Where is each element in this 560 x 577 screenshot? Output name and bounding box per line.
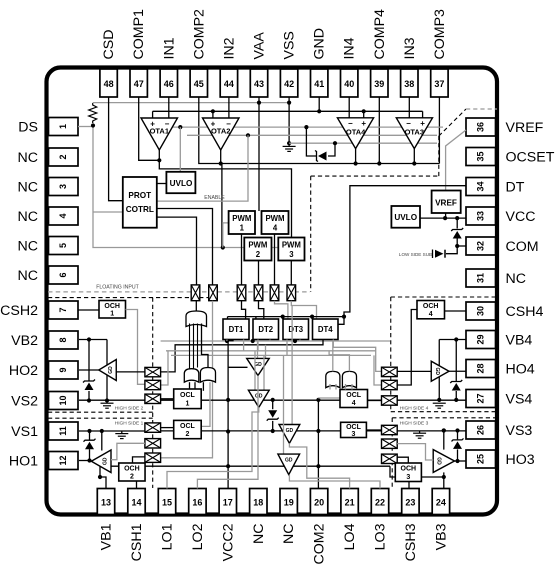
svg-text:2: 2 [185,431,189,438]
svg-text:HO3: HO3 [506,452,535,468]
block OCL2 [174,420,202,438]
svg-text:44: 44 [224,79,234,89]
pin 18 NC (bottom) [250,489,267,515]
gray bus row3 [166,350,376,352]
svg-text:29: 29 [476,334,486,344]
level shifter HS4-r2 [382,380,398,389]
svg-text:30: 30 [476,306,486,316]
pin 46 IN1 (top) [160,69,177,97]
pin 27 VS4 (right) [466,390,496,408]
svg-text:LO1: LO1 [160,523,176,550]
pin 47 COMP1 (top) [130,69,147,97]
wire CSD pin48 to PROT [109,97,123,201]
block UVLO left [166,172,195,193]
driver GD-C (LO4) [291,306,293,425]
wire CSH2 to OCH1 [78,309,99,311]
wire fault in 1 [189,324,191,369]
svg-text:36: 36 [476,122,486,132]
wire HO3 out [455,460,467,462]
svg-text:NC: NC [18,239,39,255]
or-gate OCL1 pair left [184,369,199,383]
wire IN3 to OTA3 inverting input [408,97,410,118]
gray feedback line C [289,142,437,144]
svg-text:DT3: DT3 [288,325,303,334]
svg-text:IN3: IN3 [402,37,418,59]
node Y1 d [316,398,320,402]
svg-text:34: 34 [476,181,486,191]
driver HO1 [91,450,111,473]
svg-text:CSH1: CSH1 [129,523,145,561]
block PROT COTRL [123,177,157,228]
wire VB1 path [100,466,106,489]
or-gate OCL4 pair right [342,371,356,387]
svg-text:NC: NC [18,150,39,166]
wire DT1 out a [226,340,228,342]
wire DT3 out a [286,340,288,356]
svg-text:HO1: HO1 [9,454,38,470]
svg-text:COMP2: COMP2 [191,9,207,60]
svg-text:PWM: PWM [282,241,301,250]
wire ENABLE from PROT [157,135,248,201]
wire LS2 down-long [161,301,213,458]
svg-text:DT: DT [506,180,525,196]
block OCL4 [340,390,368,408]
driver HO2 [99,360,117,381]
row Y3 [111,465,390,467]
block OCL1 [174,389,202,409]
level shifter HS2-r2 [145,380,161,389]
gray bus row4 [171,354,371,356]
wire HO4 supply [438,340,440,400]
svg-text:23: 23 [405,498,415,508]
wire VREF block to VCC line [445,213,447,218]
svg-text:COTRL: COTRL [126,205,154,214]
pin 7 CSH2 (left) [49,301,79,319]
node VCC2 x Y1 [226,398,230,402]
node VSS gray junction [287,141,291,145]
svg-text:26: 26 [476,425,486,435]
svg-text:VCC: VCC [506,209,536,225]
svg-text:LOW SIDE SUB: LOW SIDE SUB [399,252,432,257]
wire HO1 out [79,460,91,462]
wire OTA1 output down [159,150,291,238]
wire PROT to level shifter 2 [157,209,213,285]
svg-text:VB4: VB4 [506,333,533,349]
pin 36 VREF (right) [466,118,496,136]
wire GD-A out to LO2 [197,376,258,489]
driver HO4 [431,361,449,381]
wire DT2 out a [257,340,259,351]
svg-text:41: 41 [314,79,324,89]
wire IN4 to OTA4 inverting input [348,97,350,118]
node DS-resistor junction [91,123,95,127]
node VB1 [98,475,102,479]
block OCH3 [395,463,421,482]
svg-text:DT2: DT2 [258,325,273,334]
svg-text:NC: NC [506,271,527,287]
svg-text:4: 4 [429,311,433,318]
pin 34 DT (right) [466,178,496,196]
svg-text:GD: GD [434,368,440,376]
svg-text:PWM: PWM [248,241,267,250]
diode DB2 [85,383,94,391]
svg-text:LO4: LO4 [342,523,358,550]
svg-text:OCL: OCL [180,392,196,399]
svg-text:VAA: VAA [252,32,268,60]
svg-text:OCH: OCH [401,466,417,473]
svg-text:NC: NC [18,209,39,225]
svg-text:HIGH SIDE 1: HIGH SIDE 1 [115,421,144,427]
node HO1 a [87,458,91,462]
svg-text:OTA4: OTA4 [346,128,366,137]
svg-text:LO3: LO3 [373,523,389,550]
svg-text:VREF: VREF [506,120,544,136]
zener diode D1 [318,152,327,161]
pin 12 HO1 (left) [49,452,79,470]
pin 41 GND (top) [311,69,328,97]
svg-text:VB2: VB2 [11,333,38,349]
svg-text:VCC2: VCC2 [220,523,236,561]
wire IN2 to OTA2 inverting input [228,97,230,118]
svg-text:COM2: COM2 [312,523,328,564]
svg-text:OCH: OCH [423,303,439,310]
pin 8 VB2 (left) [49,331,79,349]
wire LS3 to DT1 [242,301,246,319]
wire IN1 to OTA1 inverting input [168,97,170,118]
svg-text:VS4: VS4 [506,392,533,408]
node VS1 b [100,429,104,433]
svg-text:OCH: OCH [124,466,140,473]
node COMP1/OTA1 junction [157,158,161,162]
wire OCH3 to CSH3 [408,482,410,489]
block PWM3 [278,238,304,261]
op-amp OTA3 [396,118,432,149]
svg-text:3: 3 [289,250,294,259]
wire HO2 driver input [116,371,145,373]
svg-text:PWM: PWM [265,214,284,223]
svg-text:7: 7 [58,307,68,312]
svg-text:19: 19 [284,498,294,508]
pin 31 NC (right) [466,269,496,287]
svg-text:COMP1: COMP1 [131,9,147,60]
zener center [272,400,274,409]
dashed high-side right boundary [391,296,497,298]
wire DS tap to PROT [93,211,123,213]
svg-text:VS1: VS1 [11,424,38,440]
wire LS5 to DT3 [275,301,288,319]
svg-text:GD: GD [285,458,293,464]
svg-text:1: 1 [185,401,189,408]
gray bus row2 (DT4 to HS2 level shifter) [161,340,323,372]
svg-text:GD: GD [255,394,263,400]
ground high side 4 [433,402,446,404]
pin 24 VB3 (bottom) [432,489,449,515]
svg-text:IN2: IN2 [221,37,237,59]
wire zener tap [306,127,317,156]
svg-text:4: 4 [273,224,278,233]
wire VREF/UVLO to VCC pin [420,217,466,219]
wire dome R inputs [202,382,204,391]
svg-text:48: 48 [104,79,114,89]
wire OCL4 left link [318,397,340,399]
wire DT2 out b [269,340,271,342]
block DT4 [313,319,339,340]
node VS2 a [87,398,91,402]
resistor on DS line [89,103,97,123]
block OCH4 [417,301,445,319]
wire HO1 driver input [111,443,145,459]
svg-text:39: 39 [374,79,384,89]
node DT bus c [310,315,314,319]
wire PWM4 output [274,234,276,285]
wire HO4 driver input [397,370,431,372]
svg-text:20: 20 [314,498,324,508]
block PWM2 [244,238,271,261]
op-amp OTA1 [141,118,178,150]
wire OCL3 out [366,429,381,431]
svg-text:ENABLE: ENABLE [204,195,225,201]
op-amp OTA2 [203,118,240,150]
svg-text:VB3: VB3 [433,523,449,550]
svg-text:HIGH SIDE 2: HIGH SIDE 2 [115,406,144,412]
pin 1 DS (left) [49,118,79,136]
wire OCH3 in [397,457,408,463]
wire dome L inputs [189,382,191,391]
svg-text:DT4: DT4 [318,325,333,334]
wire HS4-r3 in [368,400,382,402]
svg-text:VS2: VS2 [11,394,38,410]
level shifter LS5 [270,285,279,301]
driver HO3 [433,450,454,473]
low side sub diode [446,246,457,254]
svg-text:OCL: OCL [180,423,196,430]
svg-text:GD: GD [103,457,109,465]
node OTA4 plus [362,109,366,113]
wire VREF pin to VREF block [446,130,466,191]
wire HO3 driver input [397,444,433,460]
svg-text:3: 3 [406,474,410,481]
pin 37 COMP3 (top) [431,69,448,97]
wire OTA4 output [355,149,357,164]
pin 14 CSH1 (bottom) [128,489,145,515]
pin 48 CSD (top) [100,69,117,97]
svg-text:OCH: OCH [104,303,120,310]
level shifter HS4-r3 [382,396,398,405]
wire PWM2 output [258,261,260,285]
node OTA2 plus [211,109,215,113]
svg-text:13: 13 [101,498,111,508]
pin 38 IN3 (top) [401,69,418,97]
pin 32 COM (right) [466,237,496,255]
wire VB2 bootstrap diode branch [88,340,90,381]
diode DB3 [457,431,459,440]
wire OTA2 output [220,150,222,164]
row Y2 VS1-VS3 [145,430,466,432]
svg-text:DT1: DT1 [229,325,244,334]
svg-text:2: 2 [256,250,261,259]
wire right LS r2 link [374,355,382,385]
node VREF-VCC [443,216,447,220]
wire noninverting bus (GND) [153,110,423,112]
pin 17 VCC2 (bottom) [219,489,236,515]
svg-text:42: 42 [284,79,294,89]
svg-text:COMP4: COMP4 [372,9,388,60]
wire HO2 out [79,369,99,371]
wire HO3 supply [443,431,445,450]
svg-text:OTA3: OTA3 [405,128,424,137]
block OCH1 [99,301,126,319]
pin 5 NC (left) [49,237,79,255]
wire COM2 rail [317,398,319,489]
svg-text:VB1: VB1 [99,523,115,550]
driver GD-B (LO1) [254,351,256,390]
svg-text:CSH4: CSH4 [506,304,544,320]
wire fault in 2 [193,324,195,369]
svg-text:12: 12 [58,455,68,465]
svg-text:22: 22 [375,498,385,508]
wire PWM3 output [290,261,292,285]
svg-text:4: 4 [352,400,356,407]
wire PROT to level shifter 1 [157,217,197,285]
svg-text:47: 47 [134,79,144,89]
svg-text:40: 40 [344,79,354,89]
wire COMP4 down [378,97,380,164]
wire VREF-reference gray bus [93,102,289,104]
svg-text:37: 37 [434,79,444,89]
dashed HS4 bottom [391,411,497,413]
level shifter LS3 [237,285,246,301]
svg-text:GND: GND [312,28,328,60]
pin 25 HO3 (right) [466,450,496,468]
dashed HS2 bottom [48,411,153,413]
svg-text:UVLO: UVLO [394,213,417,222]
level shifter HS2-r3 [145,394,161,403]
svg-text:CSH2: CSH2 [0,303,38,319]
zener diode VCC-COM [456,218,458,228]
node OTA3 output junction [412,161,416,165]
node VB2 a [87,337,91,341]
svg-text:1: 1 [240,224,245,233]
node zener tap junction [304,125,308,129]
pin 16 LO2 (bottom) [189,489,206,515]
svg-text:HIGH SIDE 4: HIGH SIDE 4 [400,406,429,412]
svg-text:LO2: LO2 [190,523,206,550]
node VS1 a [87,429,91,433]
svg-text:NC: NC [281,524,297,545]
wire right dome outs [332,341,334,371]
pin 43 VAA (top) [250,69,267,97]
op-amp OTA4 [337,118,373,149]
node VCC2 x Y2 [226,429,230,433]
gray bus row1 [161,340,390,342]
wire OCH2 to CSH1 [136,481,138,489]
wire DS input [78,126,93,128]
ground high side 3 [413,432,426,434]
svg-text:9: 9 [58,367,68,372]
dashed HS1 top [48,417,153,419]
pin 15 LO1 (bottom) [158,489,175,515]
ground VSS [283,145,296,147]
node VAA on gray bus [257,101,261,105]
svg-text:43: 43 [254,79,264,89]
svg-text:IN4: IN4 [342,37,358,59]
svg-text:HO2: HO2 [9,363,38,379]
svg-text:OCSET: OCSET [506,150,555,166]
wire DT4 right input [338,317,344,325]
svg-text:38: 38 [404,79,414,89]
svg-text:21: 21 [345,498,355,508]
pin 30 CSH4 (right) [466,302,496,320]
dashed high-side left boundary [48,297,215,299]
level shifter LS6 [287,285,296,301]
wire Y3 to VB3 [390,466,444,477]
pin 23 CSH3 (bottom) [402,489,419,515]
svg-text:OTA2: OTA2 [211,127,230,136]
svg-text:3: 3 [58,184,68,189]
node PWM1 input tap [221,245,225,249]
wire HS2-r3 out [161,398,174,400]
pin 4 NC (left) [49,207,79,225]
svg-text:CSH3: CSH3 [403,523,419,561]
node VB3 [442,475,446,479]
level shifter HS1-r3 [145,453,161,462]
svg-text:46: 46 [164,79,174,89]
svg-text:COM: COM [506,239,539,255]
node OTA2 output junction [219,161,223,165]
pin 28 HO4 (right) [466,360,496,378]
wire DT3 out b [299,340,301,342]
pin 22 LO3 (bottom) [371,489,388,515]
wire UVLO riser [179,127,181,172]
node UVLO tap [178,125,182,129]
IC package outline [47,68,498,515]
wire DT pin34 to DT blocks [344,186,466,317]
block PWM4 [262,211,289,234]
pin 42 VSS (top) [280,69,297,97]
svg-text:VSS: VSS [282,31,298,59]
svg-text:4: 4 [58,213,68,218]
node GND bus junction [317,109,321,113]
node DT bus b [281,315,285,319]
svg-text:OCL: OCL [346,424,362,431]
or-gate OCL1 pair right [200,368,215,383]
wire OCH4 to CSH4 [445,310,467,312]
svg-text:35: 35 [476,151,486,161]
wire OTA3 output [413,149,415,164]
wire fault in 4 [202,324,209,368]
svg-text:45: 45 [194,79,204,89]
pin 10 VS2 (left) [49,392,79,410]
level shifter LS4 [254,285,263,301]
node OTA4 output junction [354,161,358,165]
gray feedback line A [172,126,444,128]
pin 29 VB4 (right) [466,331,496,349]
svg-text:OCL: OCL [346,392,362,399]
or-gate OCL4 pair left [326,371,340,387]
wire to COM pin32 [457,245,466,247]
or-gate fault collector [186,311,207,327]
svg-text:PROT: PROT [128,191,151,200]
pin 35 OCSET (right) [466,148,496,166]
pin 26 VS3 (right) [466,421,496,439]
diode DB4 [455,340,457,382]
node COMP4 junction [377,161,381,165]
ground high side 2 [101,402,114,404]
wire VB4 line [439,339,466,341]
svg-text:VS3: VS3 [506,423,533,439]
svg-text:25: 25 [476,454,486,464]
svg-text:OTA1: OTA1 [150,127,169,136]
